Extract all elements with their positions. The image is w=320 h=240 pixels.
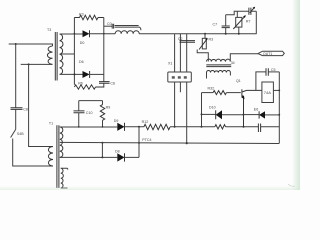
wire switch to T1 primary bottom <box>13 139 53 167</box>
node <box>102 126 104 128</box>
wire second branch down to T1 primary top <box>29 64 53 146</box>
wire lower secondary run <box>60 156 118 158</box>
node <box>138 142 140 144</box>
node <box>201 126 203 128</box>
node <box>174 126 176 128</box>
svg-text:T3: T3 <box>47 28 51 32</box>
node <box>101 156 103 158</box>
wire R3 branch vertical <box>73 18 75 85</box>
svg-text:S4B: S4B <box>17 132 24 136</box>
svg-text:74A: 74A <box>264 90 271 95</box>
svg-text:T1: T1 <box>49 122 53 126</box>
svg-text:C2: C2 <box>178 37 183 41</box>
svg-text:R3: R3 <box>79 12 84 16</box>
wire left branch vertical to C8 <box>15 44 17 108</box>
resistor R12 <box>144 124 170 129</box>
node <box>225 33 227 35</box>
capacitor C7 <box>225 28 227 34</box>
capacitor C2 <box>180 41 196 43</box>
node <box>201 113 203 115</box>
node junction left top <box>15 43 17 45</box>
svg-text:C8: C8 <box>23 108 28 112</box>
capacitor C0 <box>104 25 112 27</box>
svg-text:C5: C5 <box>271 68 276 72</box>
capacitor C10 <box>78 101 80 111</box>
varistor arrow R7 <box>233 16 245 29</box>
diode D0 <box>83 30 90 37</box>
svg-text:C7: C7 <box>213 22 218 26</box>
capacitor C5 loop <box>256 72 266 91</box>
X1 pin wires top <box>175 34 187 72</box>
capacitor C6 on vertical bus <box>103 18 105 82</box>
resistor R9 <box>102 101 104 105</box>
svg-text:D0: D0 <box>80 41 85 45</box>
resistor R32 <box>202 92 214 94</box>
wire T2 to OUT flag <box>230 54 258 62</box>
node <box>243 114 245 116</box>
node <box>186 142 188 144</box>
resistor R11 <box>215 125 226 129</box>
svg-text:D8: D8 <box>115 150 120 154</box>
svg-text:R12: R12 <box>142 120 149 124</box>
svg-text:D9: D9 <box>114 119 119 123</box>
wire AC input bottom stub <box>21 63 47 65</box>
svg-text:D6: D6 <box>79 60 84 64</box>
svg-text:C0: C0 <box>107 22 112 26</box>
bottom bus <box>60 142 279 143</box>
wire <box>226 126 259 128</box>
wire <box>125 126 144 128</box>
svg-text:Q1: Q1 <box>236 79 241 83</box>
wire top bus <box>139 33 256 35</box>
wire <box>170 126 215 128</box>
resistor R6 <box>74 85 103 89</box>
wire AC input top stub <box>9 43 47 45</box>
diode D8 <box>117 153 124 161</box>
trimmer arrow <box>250 7 255 13</box>
svg-text:R9: R9 <box>106 106 111 110</box>
node <box>238 33 240 35</box>
node <box>278 114 280 116</box>
snubber loop rail <box>79 100 103 102</box>
svg-text:X1: X1 <box>168 61 172 65</box>
trimmer capacitor plates <box>249 8 251 15</box>
inductor L0 core lines <box>115 26 141 31</box>
IC box 74A <box>262 82 274 103</box>
wire left vertical of R32 down to mid bus <box>201 93 203 127</box>
T2 core <box>206 65 231 67</box>
svg-text:R6: R6 <box>78 82 83 86</box>
right bus <box>278 72 280 143</box>
capacitor C11 <box>258 124 260 133</box>
X1 pin wires bottom <box>175 82 187 143</box>
node <box>73 73 75 75</box>
transformer T2 top winding <box>207 59 231 61</box>
svg-text:PTC4: PTC4 <box>142 138 151 142</box>
wire T3 secondary bottom tap <box>60 73 83 75</box>
wire T3 secondary center tap <box>60 53 75 55</box>
wire T3 secondary top tap <box>60 33 83 35</box>
node <box>138 126 140 128</box>
wire top right <box>226 11 249 14</box>
varistor R7 rectangle <box>236 17 242 27</box>
node <box>103 33 105 35</box>
diode D6 <box>83 71 90 78</box>
T1 lower secondary winding <box>61 168 64 188</box>
resistor R3 <box>74 15 103 20</box>
varistor R3 top middle <box>204 33 206 35</box>
svg-text:E6: E6 <box>254 107 258 111</box>
node <box>278 90 280 92</box>
wire mid bus left <box>60 126 118 128</box>
svg-text:D10: D10 <box>209 106 216 110</box>
net flag OUT1 <box>258 51 284 55</box>
paper curl mark bottom right <box>288 184 295 186</box>
svg-text:R3: R3 <box>209 38 214 42</box>
inductor L0 <box>115 31 139 34</box>
node junction left bottom <box>28 63 30 65</box>
svg-text:C6: C6 <box>110 81 115 85</box>
switch S4B <box>11 130 16 138</box>
diode E6 <box>244 114 260 116</box>
svg-text:OUT1: OUT1 <box>263 52 272 56</box>
diode D10 <box>202 113 216 115</box>
node <box>101 142 103 144</box>
wire below C8 <box>15 109 17 129</box>
node <box>74 33 76 35</box>
diode D9 <box>117 123 124 131</box>
capacitor C8 <box>11 108 23 110</box>
svg-text:C10: C10 <box>86 111 93 115</box>
svg-text:34: 34 <box>231 61 235 65</box>
wire vertical link <box>101 143 103 158</box>
wire varistor to T2 <box>197 50 208 62</box>
T2 bottom winding <box>207 71 231 73</box>
svg-text:R7: R7 <box>246 19 251 23</box>
node <box>243 126 245 128</box>
svg-text:R32: R32 <box>208 86 215 90</box>
node <box>78 126 80 128</box>
